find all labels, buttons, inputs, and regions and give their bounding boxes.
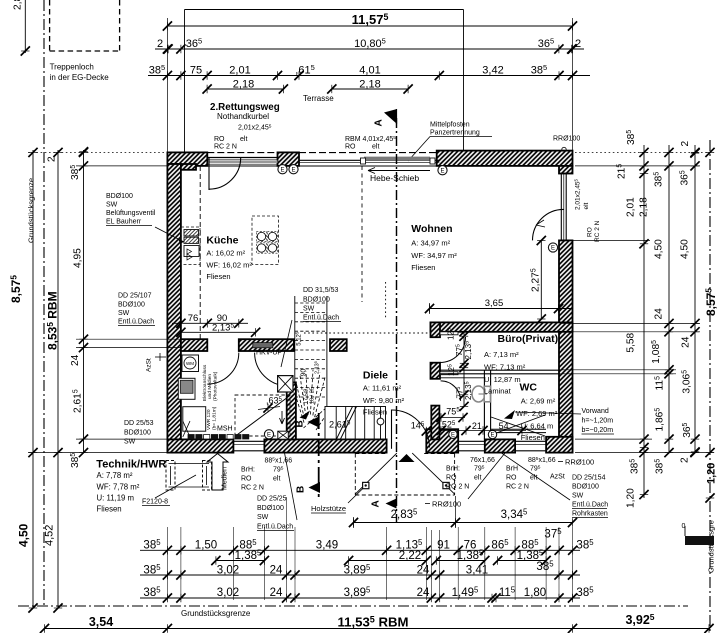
svg-text:Küche: Küche xyxy=(206,235,238,247)
svg-text:Terrasse: Terrasse xyxy=(303,94,334,103)
svg-text:2,85: 2,85 xyxy=(12,0,23,10)
svg-text:24: 24 xyxy=(270,565,283,577)
svg-text:Entl.ü.Dach: Entl.ü.Dach xyxy=(257,524,293,531)
svg-text:DD 25/53: DD 25/53 xyxy=(124,420,154,427)
svg-text:elt: elt xyxy=(583,202,590,209)
svg-text:4,01: 4,01 xyxy=(359,65,380,77)
svg-text:Wohnen: Wohnen xyxy=(411,223,452,235)
svg-text:4,95: 4,95 xyxy=(73,248,84,268)
svg-text:BrH: BrH xyxy=(506,466,518,473)
svg-text:SW: SW xyxy=(106,202,118,209)
svg-text:SW: SW xyxy=(118,310,130,317)
svg-text:A: A xyxy=(371,500,382,507)
svg-text:U: 12,87 m: U: 12,87 m xyxy=(484,375,521,384)
svg-text:E: E xyxy=(280,167,284,173)
svg-text:RO: RO xyxy=(506,475,517,482)
svg-text:RBM 4,01x2,455: RBM 4,01x2,455 xyxy=(345,135,396,143)
svg-text:SW: SW xyxy=(257,514,269,521)
svg-text:3,54: 3,54 xyxy=(89,615,113,629)
svg-text:RQ 2 N: RQ 2 N xyxy=(446,484,469,491)
svg-text:Entl.ü.Dach: Entl.ü.Dach xyxy=(303,315,339,322)
svg-text:E: E xyxy=(291,167,295,173)
svg-text:RO: RO xyxy=(214,136,225,143)
svg-text:WC: WC xyxy=(520,382,538,394)
svg-text:3,42: 3,42 xyxy=(482,65,503,77)
svg-text:BrH:: BrH: xyxy=(446,466,460,473)
svg-text:Laminat: Laminat xyxy=(484,387,512,396)
svg-text:4,50: 4,50 xyxy=(680,239,691,259)
svg-text:F2120-8: F2120-8 xyxy=(142,499,168,506)
svg-text:2,18: 2,18 xyxy=(359,79,380,91)
svg-text:Fliesen: Fliesen xyxy=(411,263,435,272)
svg-text:24: 24 xyxy=(270,587,283,599)
svg-text:BDØ100: BDØ100 xyxy=(303,297,330,304)
svg-text:DD 31,5/53: DD 31,5/53 xyxy=(303,287,339,294)
svg-text:WM: WM xyxy=(186,361,194,366)
svg-text:WF: 9,80 m²: WF: 9,80 m² xyxy=(363,396,405,405)
svg-text:Technik/HWR: Technik/HWR xyxy=(96,459,166,471)
svg-text:3,02: 3,02 xyxy=(217,565,239,577)
svg-text:A: A xyxy=(374,119,385,126)
svg-text:2,01x2,455: 2,01x2,455 xyxy=(574,178,582,210)
svg-text:WF: 34,97 m²: WF: 34,97 m² xyxy=(411,251,457,260)
svg-text:Fliesen: Fliesen xyxy=(206,272,230,281)
svg-text:3,02: 3,02 xyxy=(217,587,239,599)
svg-text:BDØ100: BDØ100 xyxy=(572,484,599,491)
svg-text:8,535 RBM: 8,535 RBM xyxy=(46,291,60,350)
svg-text:Rohrkasten: Rohrkasten xyxy=(572,511,608,518)
svg-text:Holzstütze: Holzstütze xyxy=(311,504,346,513)
svg-text:Entl.ü.Dach: Entl.ü.Dach xyxy=(572,502,608,509)
svg-text:Grundstücksgre: Grundstücksgre xyxy=(707,520,716,573)
svg-text:Fliesen: Fliesen xyxy=(97,505,122,514)
svg-text:3,49: 3,49 xyxy=(316,540,338,552)
svg-text:RO: RO xyxy=(587,227,594,237)
svg-text:RO: RO xyxy=(241,476,252,483)
svg-text:(Photovoltaik): (Photovoltaik) xyxy=(213,371,219,401)
svg-text:5,58: 5,58 xyxy=(626,332,637,352)
svg-text:2,01x2,455: 2,01x2,455 xyxy=(238,123,272,131)
svg-text:SW: SW xyxy=(124,439,136,446)
svg-text:BDØ100: BDØ100 xyxy=(118,302,145,309)
svg-text:SW: SW xyxy=(572,493,584,500)
svg-text:RRØ100: RRØ100 xyxy=(432,500,461,509)
svg-text:Entl.ü.Dach: Entl.ü.Dach xyxy=(118,319,154,326)
svg-text:RO: RO xyxy=(345,144,356,151)
svg-text:A: 7,13 m²: A: 7,13 m² xyxy=(484,350,519,359)
svg-text:2,01: 2,01 xyxy=(229,65,250,77)
svg-text:885x1,66: 885x1,66 xyxy=(265,456,293,464)
svg-text:4,50: 4,50 xyxy=(654,239,665,259)
svg-text:A: 16,02 m²: A: 16,02 m² xyxy=(206,248,245,257)
svg-text:24: 24 xyxy=(417,565,430,577)
svg-text:HKV-UP: HKV-UP xyxy=(256,350,282,357)
svg-text:WF: 7,13 m²: WF: 7,13 m² xyxy=(484,363,526,372)
svg-text:2,18: 2,18 xyxy=(639,197,650,217)
svg-text:Fliesen: Fliesen xyxy=(521,433,545,442)
svg-text:Diele: Diele xyxy=(363,370,388,382)
svg-text:RRØ100: RRØ100 xyxy=(565,458,594,467)
svg-text:1,20: 1,20 xyxy=(626,488,637,508)
svg-text:Mittelpfosten: Mittelpfosten xyxy=(430,122,470,129)
svg-text:b=~0,20m: b=~0,20m xyxy=(582,427,614,434)
svg-text:in der EG-Decke: in der EG-Decke xyxy=(50,73,110,82)
svg-text:3,65: 3,65 xyxy=(485,298,504,309)
svg-text:2,22: 2,22 xyxy=(399,550,421,562)
svg-text:Medien: Medien xyxy=(222,467,229,490)
svg-text:Hebe-Schieb: Hebe-Schieb xyxy=(370,173,419,183)
svg-text:A: 11,61 m²: A: 11,61 m² xyxy=(363,383,402,392)
svg-text:Nothandkurbel: Nothandkurbel xyxy=(217,112,269,121)
svg-text:2,01: 2,01 xyxy=(626,197,637,217)
svg-text:76: 76 xyxy=(188,313,199,324)
svg-text:VWR 120: VWR 120 xyxy=(206,409,212,430)
svg-text:1,20: 1,20 xyxy=(706,463,718,484)
svg-text:DD 25/107: DD 25/107 xyxy=(118,293,152,300)
svg-text:WF: 16,02 m²: WF: 16,02 m² xyxy=(206,260,252,269)
svg-text:21: 21 xyxy=(472,421,482,431)
svg-text:WF: 2,69 m²: WF: 2,69 m² xyxy=(516,409,558,418)
svg-text:U: 11,19 m: U: 11,19 m xyxy=(97,494,135,503)
svg-text:EL Bauherr: EL Bauherr xyxy=(106,219,142,226)
svg-text:Grundstücksgrenze: Grundstücksgrenze xyxy=(181,609,251,618)
svg-text:Büro(Privat): Büro(Privat) xyxy=(498,333,559,345)
svg-text:24: 24 xyxy=(417,587,430,599)
svg-text:RC 2 N: RC 2 N xyxy=(214,144,237,151)
svg-text:2: 2 xyxy=(680,141,691,147)
svg-text:75: 75 xyxy=(190,65,202,77)
svg-text:24: 24 xyxy=(681,336,692,348)
svg-text:91: 91 xyxy=(437,540,450,552)
svg-text:885x1,66: 885x1,66 xyxy=(528,456,556,464)
svg-text:AzSt: AzSt xyxy=(550,474,565,481)
svg-text:Treppenloch: Treppenloch xyxy=(50,63,94,72)
svg-text:E: E xyxy=(451,432,455,438)
svg-text:SW: SW xyxy=(303,306,315,313)
svg-text:elt: elt xyxy=(273,476,280,483)
svg-text:54: 54 xyxy=(499,421,509,431)
svg-text:RRØ100: RRØ100 xyxy=(553,136,580,143)
svg-text:90: 90 xyxy=(301,369,308,377)
svg-text:Belüftungsventil: Belüftungsventil xyxy=(106,210,156,217)
svg-text:BDØ100: BDØ100 xyxy=(106,193,133,200)
svg-text:E: E xyxy=(490,433,494,439)
svg-text:h=~1,20m: h=~1,20m xyxy=(582,418,614,425)
svg-text:1,50: 1,50 xyxy=(195,540,217,552)
svg-text:2: 2 xyxy=(157,38,163,50)
svg-text:A: 34,97 m²: A: 34,97 m² xyxy=(411,239,450,248)
svg-text:11,575: 11,575 xyxy=(352,12,389,27)
svg-text:4,50: 4,50 xyxy=(17,523,31,547)
svg-text:B: B xyxy=(295,420,306,427)
svg-text:24: 24 xyxy=(70,354,81,366)
svg-text:RC 2 N: RC 2 N xyxy=(594,220,601,242)
svg-text:und Medien: und Medien xyxy=(207,374,213,399)
svg-text:4,52: 4,52 xyxy=(44,525,56,546)
svg-text:RC 2 N: RC 2 N xyxy=(241,485,264,492)
svg-text:2,18: 2,18 xyxy=(233,79,254,91)
svg-text:Panzertrennung: Panzertrennung xyxy=(430,130,480,137)
svg-text:Grundstücksgrenze: Grundstücksgrenze xyxy=(27,178,36,243)
svg-text:DD 25/25: DD 25/25 xyxy=(257,496,287,503)
svg-text:Fliesen: Fliesen xyxy=(363,408,387,417)
svg-text:E: E xyxy=(267,432,271,438)
svg-text:76x1,66: 76x1,66 xyxy=(470,457,495,464)
svg-text:24: 24 xyxy=(654,308,665,320)
svg-text:AzSt: AzSt xyxy=(146,358,153,372)
svg-text:10,805: 10,805 xyxy=(354,37,386,50)
svg-text:Vorwand: Vorwand xyxy=(582,408,609,415)
svg-text:DD 25/154: DD 25/154 xyxy=(572,475,606,482)
svg-text:A: 2,69 m²: A: 2,69 m² xyxy=(521,397,556,406)
svg-text:BDØ100: BDØ100 xyxy=(124,430,151,437)
svg-text:RQ: RQ xyxy=(446,475,457,482)
svg-text:2: 2 xyxy=(575,38,581,50)
svg-text:2: 2 xyxy=(47,156,58,162)
svg-text:1,80: 1,80 xyxy=(524,587,546,599)
svg-text:elt: elt xyxy=(372,144,379,151)
svg-text:WF: 7,78 m²: WF: 7,78 m² xyxy=(97,483,140,492)
svg-text:MSH: MSH xyxy=(217,426,233,433)
svg-text:A: 7,78 m²: A: 7,78 m² xyxy=(97,471,133,480)
svg-text:BrH:: BrH: xyxy=(241,467,255,474)
svg-text:E: E xyxy=(551,246,555,252)
svg-text:18 / 25: 18 / 25 xyxy=(310,387,316,404)
svg-text:2: 2 xyxy=(680,457,691,463)
svg-text:RC 2 N: RC 2 N xyxy=(506,484,529,491)
svg-text:E: E xyxy=(440,168,444,174)
svg-text:elt: elt xyxy=(474,475,481,482)
svg-text:BDØ100: BDØ100 xyxy=(257,505,284,512)
svg-text:elt: elt xyxy=(240,136,247,143)
svg-text:B: B xyxy=(296,486,307,493)
